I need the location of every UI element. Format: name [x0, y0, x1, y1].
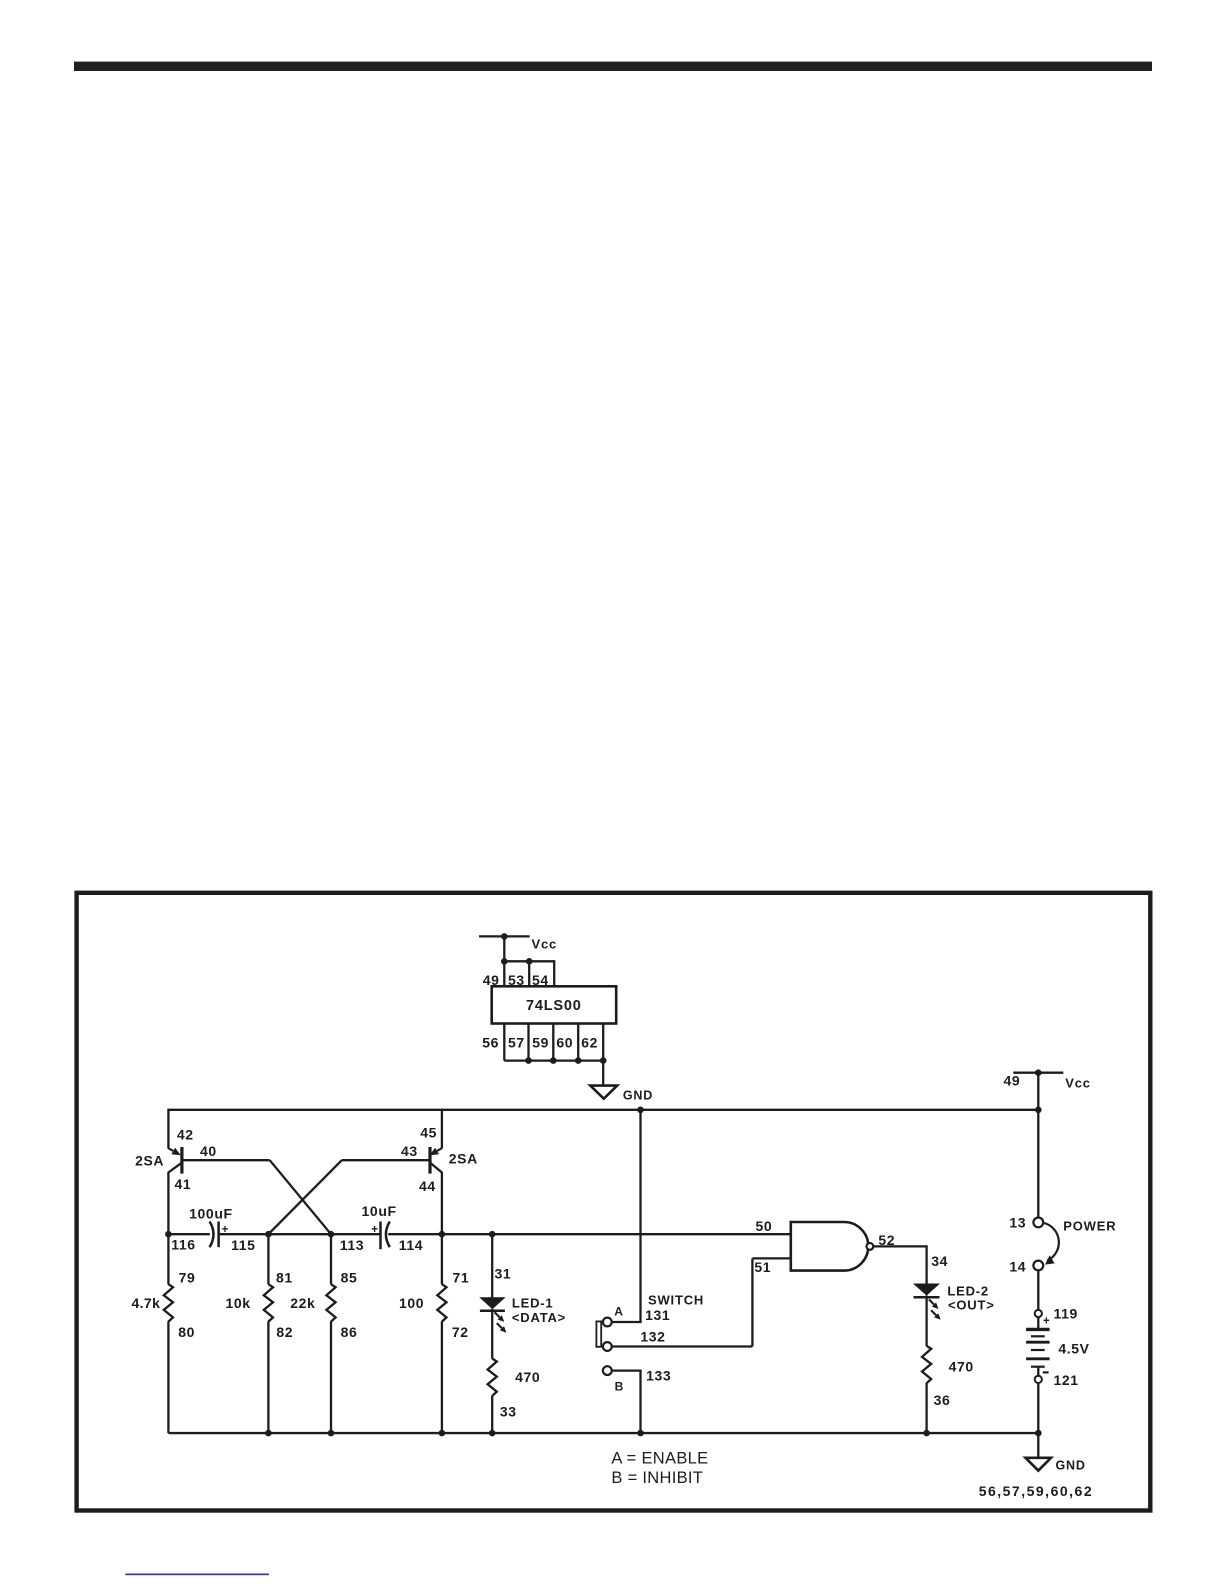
- junction dot rail/battery: [1035, 1430, 1042, 1437]
- switch S1 contact 132 circle: [603, 1342, 612, 1351]
- wire output to LED-2 (vertical): [925, 1245, 927, 1283]
- svg-text:43: 43: [401, 1143, 418, 1159]
- pin label 85: [341, 1269, 358, 1285]
- power switch blade arc: [1044, 1223, 1059, 1265]
- svg-text:60: 60: [556, 1034, 573, 1050]
- power switch contact 13 circle: [1033, 1218, 1043, 1228]
- label Vcc (IC): [532, 937, 558, 952]
- pin label 49 (IC top): [483, 972, 500, 988]
- NAND gate inverter bubble: [867, 1243, 874, 1250]
- wire Vcc to power switch: [1037, 1073, 1039, 1218]
- svg-text:Vcc: Vcc: [1065, 1076, 1091, 1091]
- svg-text:119: 119: [1054, 1306, 1078, 1322]
- power switch contact 14 circle: [1033, 1261, 1043, 1271]
- wire R-10k to ground rail: [267, 1321, 269, 1433]
- wire pin 49 vertical: [503, 935, 505, 986]
- top horizontal rule: [74, 62, 1152, 71]
- footer hyperlink underline: [125, 1574, 269, 1576]
- svg-text:2SA: 2SA: [135, 1153, 164, 1169]
- svg-text:45: 45: [420, 1125, 437, 1141]
- pin label 113: [340, 1237, 364, 1253]
- battery BT1 plate short 1: [1031, 1335, 1045, 1337]
- resistor R-470 zigzag (31/33): [488, 1359, 497, 1396]
- pin label 45 (Q2 emitter): [420, 1125, 437, 1141]
- wire ground bus under IC: [504, 1059, 603, 1061]
- wire Q1 collector vertical: [167, 1172, 169, 1285]
- wire LED-1 to R-470: [491, 1309, 493, 1359]
- pin label 50: [756, 1218, 773, 1234]
- label SWITCH: [648, 1292, 704, 1307]
- svg-text:44: 44: [419, 1178, 436, 1194]
- resistor R-22k zigzag (85/86): [326, 1284, 335, 1321]
- battery BT1 plate short 3: [1031, 1366, 1045, 1368]
- LED-1 emission arrow 2: [497, 1323, 507, 1333]
- switch S1 actuator bracket: [596, 1321, 601, 1346]
- label POWER: [1063, 1219, 1116, 1234]
- pin label 114: [399, 1237, 423, 1253]
- junction dot rail/LED-2 branch: [923, 1430, 930, 1437]
- resistor R-470 zigzag (34/36): [922, 1346, 931, 1383]
- wire bottom ground rail: [168, 1432, 1038, 1434]
- NAND gate U1 body: [791, 1222, 869, 1271]
- resistor R-4.7k zigzag (79/80): [164, 1284, 173, 1321]
- svg-text:GND: GND: [623, 1088, 653, 1102]
- wire top supply rail: [168, 1109, 1038, 1111]
- pin label 62: [581, 1034, 598, 1050]
- battery polarity +: [1043, 1316, 1050, 1328]
- svg-text:81: 81: [276, 1269, 293, 1285]
- wire node113 vertical to R-22k: [330, 1234, 332, 1284]
- svg-text:71: 71: [453, 1269, 470, 1285]
- ground symbol (right): [1026, 1458, 1052, 1471]
- pin label 132: [640, 1329, 665, 1345]
- svg-text:SWITCH: SWITCH: [648, 1292, 704, 1307]
- junction dot rail/B: [637, 1430, 644, 1437]
- pin label 56: [482, 1034, 499, 1050]
- svg-text:B: B: [615, 1379, 624, 1393]
- junction dot rail/R-10k: [265, 1430, 272, 1437]
- pin label 43 (Q2 base): [401, 1143, 418, 1159]
- pin label 80: [178, 1324, 195, 1340]
- junction dot rail / switch branch: [637, 1107, 644, 1114]
- label 4.5V: [1058, 1340, 1089, 1356]
- svg-text:22k: 22k: [290, 1295, 315, 1311]
- wire 132 to NAND input 51 (vertical): [751, 1258, 753, 1346]
- label B (switch): [615, 1379, 624, 1393]
- svg-text:56: 56: [482, 1034, 499, 1050]
- svg-text:14: 14: [1009, 1258, 1026, 1274]
- pin label 31: [495, 1265, 512, 1281]
- pin label 121: [1054, 1372, 1079, 1388]
- label 56,57,59,60,62: [979, 1483, 1093, 1499]
- schematic border frame: [77, 893, 1151, 1511]
- pin label 59: [532, 1034, 549, 1050]
- pin label 34: [931, 1253, 948, 1269]
- svg-text:72: 72: [452, 1324, 469, 1340]
- svg-text:115: 115: [231, 1237, 255, 1253]
- svg-text:470: 470: [949, 1359, 974, 1375]
- label (OUT): [948, 1298, 995, 1313]
- pin label 57: [508, 1034, 525, 1050]
- svg-text:132: 132: [640, 1329, 665, 1345]
- label Vcc (right): [1065, 1076, 1091, 1091]
- wire LED-2 to R-470: [925, 1296, 927, 1347]
- battery terminal circle 119: [1035, 1310, 1042, 1317]
- svg-text:121: 121: [1054, 1372, 1079, 1388]
- svg-text:LED-2: LED-2: [947, 1283, 989, 1298]
- svg-text:31: 31: [495, 1265, 512, 1281]
- svg-text:85: 85: [341, 1269, 358, 1285]
- pin label 79: [179, 1269, 196, 1285]
- wire pin 54 vertical: [553, 960, 555, 986]
- svg-text:57: 57: [508, 1034, 525, 1050]
- switch contact B circle: [603, 1366, 612, 1375]
- svg-text:LED-1: LED-1: [512, 1295, 554, 1310]
- wire R-4.7k to ground rail: [167, 1321, 169, 1433]
- svg-text:33: 33: [500, 1404, 517, 1420]
- svg-text:470: 470: [515, 1369, 540, 1385]
- svg-text:10uF: 10uF: [362, 1203, 397, 1219]
- pin label 81: [276, 1269, 293, 1285]
- pin label 41 (Q1 collector): [175, 1176, 192, 1192]
- pin label 53: [508, 972, 525, 988]
- wire node116 to C1: [168, 1233, 209, 1235]
- resistor R-10k zigzag (81/82): [264, 1284, 273, 1321]
- svg-text:+: +: [1043, 1316, 1050, 1328]
- wire Q2 base horizontal: [342, 1159, 430, 1161]
- wire Q1 base horizontal: [182, 1159, 270, 1161]
- battery polarity -: [1043, 1371, 1049, 1373]
- label 100: [399, 1295, 424, 1311]
- capacitor C1 100uF straight plate: [217, 1222, 220, 1248]
- svg-text:56,57,59,60,62: 56,57,59,60,62: [979, 1483, 1093, 1499]
- LED-2 diode triangle: [913, 1284, 940, 1296]
- svg-text:B = INHIBIT: B = INHIBIT: [611, 1469, 703, 1487]
- wire 119 to battery top: [1037, 1317, 1039, 1329]
- capacitor C2 10uF curved plate: [386, 1222, 390, 1248]
- svg-text:GND: GND: [1056, 1459, 1086, 1473]
- wire rail to switch A (vertical): [639, 1110, 641, 1322]
- svg-text:A = ENABLE: A = ENABLE: [611, 1450, 708, 1468]
- junction dot node 115: [265, 1231, 272, 1238]
- battery BT1 plate short 2: [1031, 1349, 1045, 1351]
- svg-text:A: A: [614, 1304, 623, 1318]
- svg-text:34: 34: [931, 1253, 948, 1269]
- svg-text:2SA: 2SA: [449, 1151, 478, 1167]
- wire pin 57 vertical: [527, 1024, 529, 1061]
- transistor Q2 base bar: [428, 1147, 431, 1174]
- wire pin 56 vertical: [503, 1024, 505, 1061]
- svg-text:4.7k: 4.7k: [131, 1295, 160, 1311]
- junction dot node 114/71: [439, 1231, 446, 1238]
- svg-text:4.5V: 4.5V: [1058, 1340, 1089, 1356]
- LED-2 cathode bar: [914, 1296, 940, 1299]
- pin label 42 (Q1 emitter): [177, 1127, 194, 1143]
- label (DATA): [512, 1310, 566, 1325]
- pin label 72: [452, 1324, 469, 1340]
- label LED-2: [947, 1283, 989, 1298]
- wire node31 to NAND input 50: [492, 1233, 791, 1235]
- battery BT1 plate long 2: [1026, 1341, 1050, 1344]
- pin label 133: [646, 1368, 671, 1384]
- svg-text:114: 114: [399, 1237, 423, 1253]
- svg-text:36: 36: [934, 1392, 951, 1408]
- pin label 82: [276, 1324, 293, 1340]
- wire cross-couple Q2 base to node 115: [268, 1160, 341, 1234]
- svg-text:131: 131: [645, 1307, 670, 1323]
- wire B to ground rail: [639, 1371, 641, 1434]
- pin label 52: [878, 1232, 895, 1248]
- pin label 33: [500, 1404, 517, 1420]
- junction dot rail / Vcc branch: [1035, 1107, 1042, 1114]
- battery BT1 plate long 1: [1026, 1328, 1050, 1331]
- pin label 116: [171, 1237, 195, 1253]
- wire R-22k to ground rail: [330, 1321, 332, 1433]
- junction dot pin 62: [600, 1057, 607, 1064]
- wire 121 to ground rail: [1037, 1383, 1039, 1433]
- svg-text:113: 113: [340, 1237, 364, 1253]
- pin label 40 (Q1 base): [200, 1143, 217, 1159]
- wire Q1 emitter from rail: [167, 1109, 169, 1149]
- pin label 119: [1054, 1306, 1078, 1322]
- wire Q2 collector diagonal: [430, 1163, 442, 1173]
- label 470 (LED-1): [515, 1369, 540, 1385]
- battery BT1 plate long 3: [1026, 1357, 1050, 1360]
- wire Vcc stub (right): [1013, 1072, 1063, 1074]
- pin label 36: [934, 1392, 951, 1408]
- junction dot node 116: [165, 1231, 172, 1238]
- LED-1 cathode bar: [480, 1310, 505, 1313]
- wire 132 to NAND input 51 (horizontal): [612, 1345, 753, 1347]
- wire node115 vertical to R-10k: [267, 1234, 269, 1284]
- wire cross-couple Q1 base to node 113: [270, 1160, 331, 1234]
- label 4.7k: [131, 1295, 160, 1311]
- label 2SA (Q2): [449, 1151, 478, 1167]
- Vcc wire (IC supply): [479, 935, 530, 937]
- svg-text:10k: 10k: [226, 1295, 251, 1311]
- LED-2 emission arrow 2: [931, 1310, 941, 1320]
- svg-text:42: 42: [177, 1127, 194, 1143]
- switch S1 contact A circle: [603, 1318, 612, 1327]
- svg-text:74LS00: 74LS00: [526, 998, 582, 1014]
- wire switch A horizontal: [612, 1321, 642, 1323]
- svg-text:<DATA>: <DATA>: [512, 1310, 566, 1325]
- wire NAND input 51 stub: [752, 1257, 790, 1259]
- junction dot node 31: [489, 1231, 496, 1238]
- legend B = INHIBIT: [611, 1469, 703, 1487]
- pin label 13: [1009, 1215, 1026, 1231]
- junction dot pin 59: [550, 1057, 557, 1064]
- wire node 115 to node 113: [268, 1233, 331, 1235]
- capacitor C2 10uF straight plate: [379, 1222, 382, 1250]
- wire Q1 collector diagonal: [168, 1163, 182, 1173]
- svg-text:100: 100: [399, 1295, 424, 1311]
- label 22k: [290, 1295, 315, 1311]
- battery terminal circle 121: [1035, 1376, 1042, 1383]
- svg-text:40: 40: [200, 1143, 217, 1159]
- label 10k: [226, 1295, 251, 1311]
- wire node114 to node 31: [442, 1233, 492, 1235]
- junction dot pin 53: [526, 958, 533, 965]
- label 2SA (Q1): [135, 1153, 164, 1169]
- svg-text:+: +: [371, 1224, 378, 1236]
- svg-text:Vcc: Vcc: [532, 937, 558, 952]
- LED-1 diode triangle: [479, 1297, 505, 1309]
- junction dot rail/R-22k: [328, 1430, 335, 1437]
- wire B horizontal: [612, 1369, 642, 1371]
- junction dot rail/LED-1 branch: [489, 1430, 496, 1437]
- ground symbol (IC): [590, 1086, 617, 1099]
- svg-text:82: 82: [276, 1324, 293, 1340]
- svg-text:133: 133: [646, 1368, 671, 1384]
- svg-text:50: 50: [756, 1218, 773, 1234]
- label GND (IC): [623, 1088, 653, 1102]
- wire 14 to battery: [1037, 1270, 1039, 1310]
- svg-text:51: 51: [754, 1259, 771, 1275]
- wire pin 62 vertical: [602, 1024, 604, 1061]
- junction dot Vcc: [501, 933, 508, 940]
- pin label 71: [453, 1269, 470, 1285]
- pin label 49 (right): [1004, 1073, 1021, 1089]
- svg-text:59: 59: [532, 1034, 549, 1050]
- transistor Q1 2SA emitter arrow: [168, 1148, 180, 1156]
- wire R-470 to ground rail: [491, 1396, 493, 1433]
- wire Q2 collector vertical: [441, 1172, 443, 1285]
- label 470 (LED-2): [949, 1359, 974, 1375]
- wire pin 59 vertical: [552, 1024, 554, 1061]
- svg-text:13: 13: [1009, 1215, 1026, 1231]
- junction dot pin 60: [575, 1057, 582, 1064]
- wire NAND output 52: [873, 1245, 926, 1247]
- wire IC ground drop: [602, 1061, 604, 1086]
- svg-text:POWER: POWER: [1063, 1219, 1116, 1234]
- junction dot Vcc right: [1035, 1069, 1042, 1076]
- wire rail to ground symbol (right): [1037, 1433, 1039, 1458]
- label 74LS00: [526, 998, 582, 1014]
- label 100uF: [189, 1206, 232, 1222]
- wire R-100 to ground rail: [441, 1321, 443, 1433]
- label LED-1: [512, 1295, 554, 1310]
- pin label 115: [231, 1237, 255, 1253]
- IC U1 74LS00 body: [492, 986, 617, 1023]
- C1 polarity +: [222, 1224, 229, 1236]
- wire LED-1 anode vertical: [491, 1234, 493, 1297]
- legend A = ENABLE: [611, 1450, 708, 1468]
- C2 polarity +: [371, 1224, 378, 1236]
- pin label 54: [532, 972, 549, 988]
- svg-text:49: 49: [1004, 1073, 1021, 1089]
- svg-text:80: 80: [178, 1324, 195, 1340]
- wire battery bottom to 121: [1037, 1367, 1039, 1376]
- svg-text:62: 62: [581, 1034, 598, 1050]
- junction dot node 113: [328, 1231, 335, 1238]
- svg-text:<OUT>: <OUT>: [948, 1298, 995, 1313]
- wire C2 to node 114: [388, 1233, 442, 1235]
- pin label 44 (Q2 collector): [419, 1178, 436, 1194]
- capacitor C1 100uF curved plate: [210, 1222, 214, 1248]
- pin label 14: [1009, 1258, 1026, 1274]
- pin label 51: [754, 1259, 771, 1275]
- svg-text:79: 79: [179, 1269, 196, 1285]
- junction dot pin49/53: [501, 958, 508, 965]
- label GND (right): [1056, 1459, 1086, 1473]
- wire C1 to node 115: [219, 1233, 269, 1235]
- svg-text:41: 41: [175, 1176, 192, 1192]
- resistor R-100 zigzag (71/72): [437, 1284, 446, 1321]
- pin label 60: [556, 1034, 573, 1050]
- junction dot pin 57: [525, 1057, 532, 1064]
- pin label 86: [341, 1324, 358, 1340]
- wire Q2 emitter from rail: [441, 1109, 443, 1149]
- svg-text:100uF: 100uF: [189, 1206, 232, 1222]
- transistor Q2 2SA emitter arrow: [430, 1148, 442, 1156]
- junction dot rail/R-100: [439, 1430, 446, 1437]
- transistor Q1 base bar: [180, 1147, 183, 1174]
- wire pins 53-54 horizontal: [504, 960, 554, 962]
- label A (switch): [614, 1304, 623, 1318]
- wire R-470 to ground rail: [925, 1383, 927, 1433]
- label 10uF: [362, 1203, 397, 1219]
- svg-text:86: 86: [341, 1324, 358, 1340]
- svg-text:116: 116: [171, 1237, 195, 1253]
- wire pin 53 vertical: [528, 961, 530, 986]
- LED-1 emission arrow 1: [495, 1312, 505, 1322]
- LED-2 emission arrow 1: [929, 1299, 939, 1309]
- wire pin 60 vertical: [577, 1024, 579, 1061]
- pin label 131: [645, 1307, 670, 1323]
- wire node113 to C2: [331, 1233, 381, 1235]
